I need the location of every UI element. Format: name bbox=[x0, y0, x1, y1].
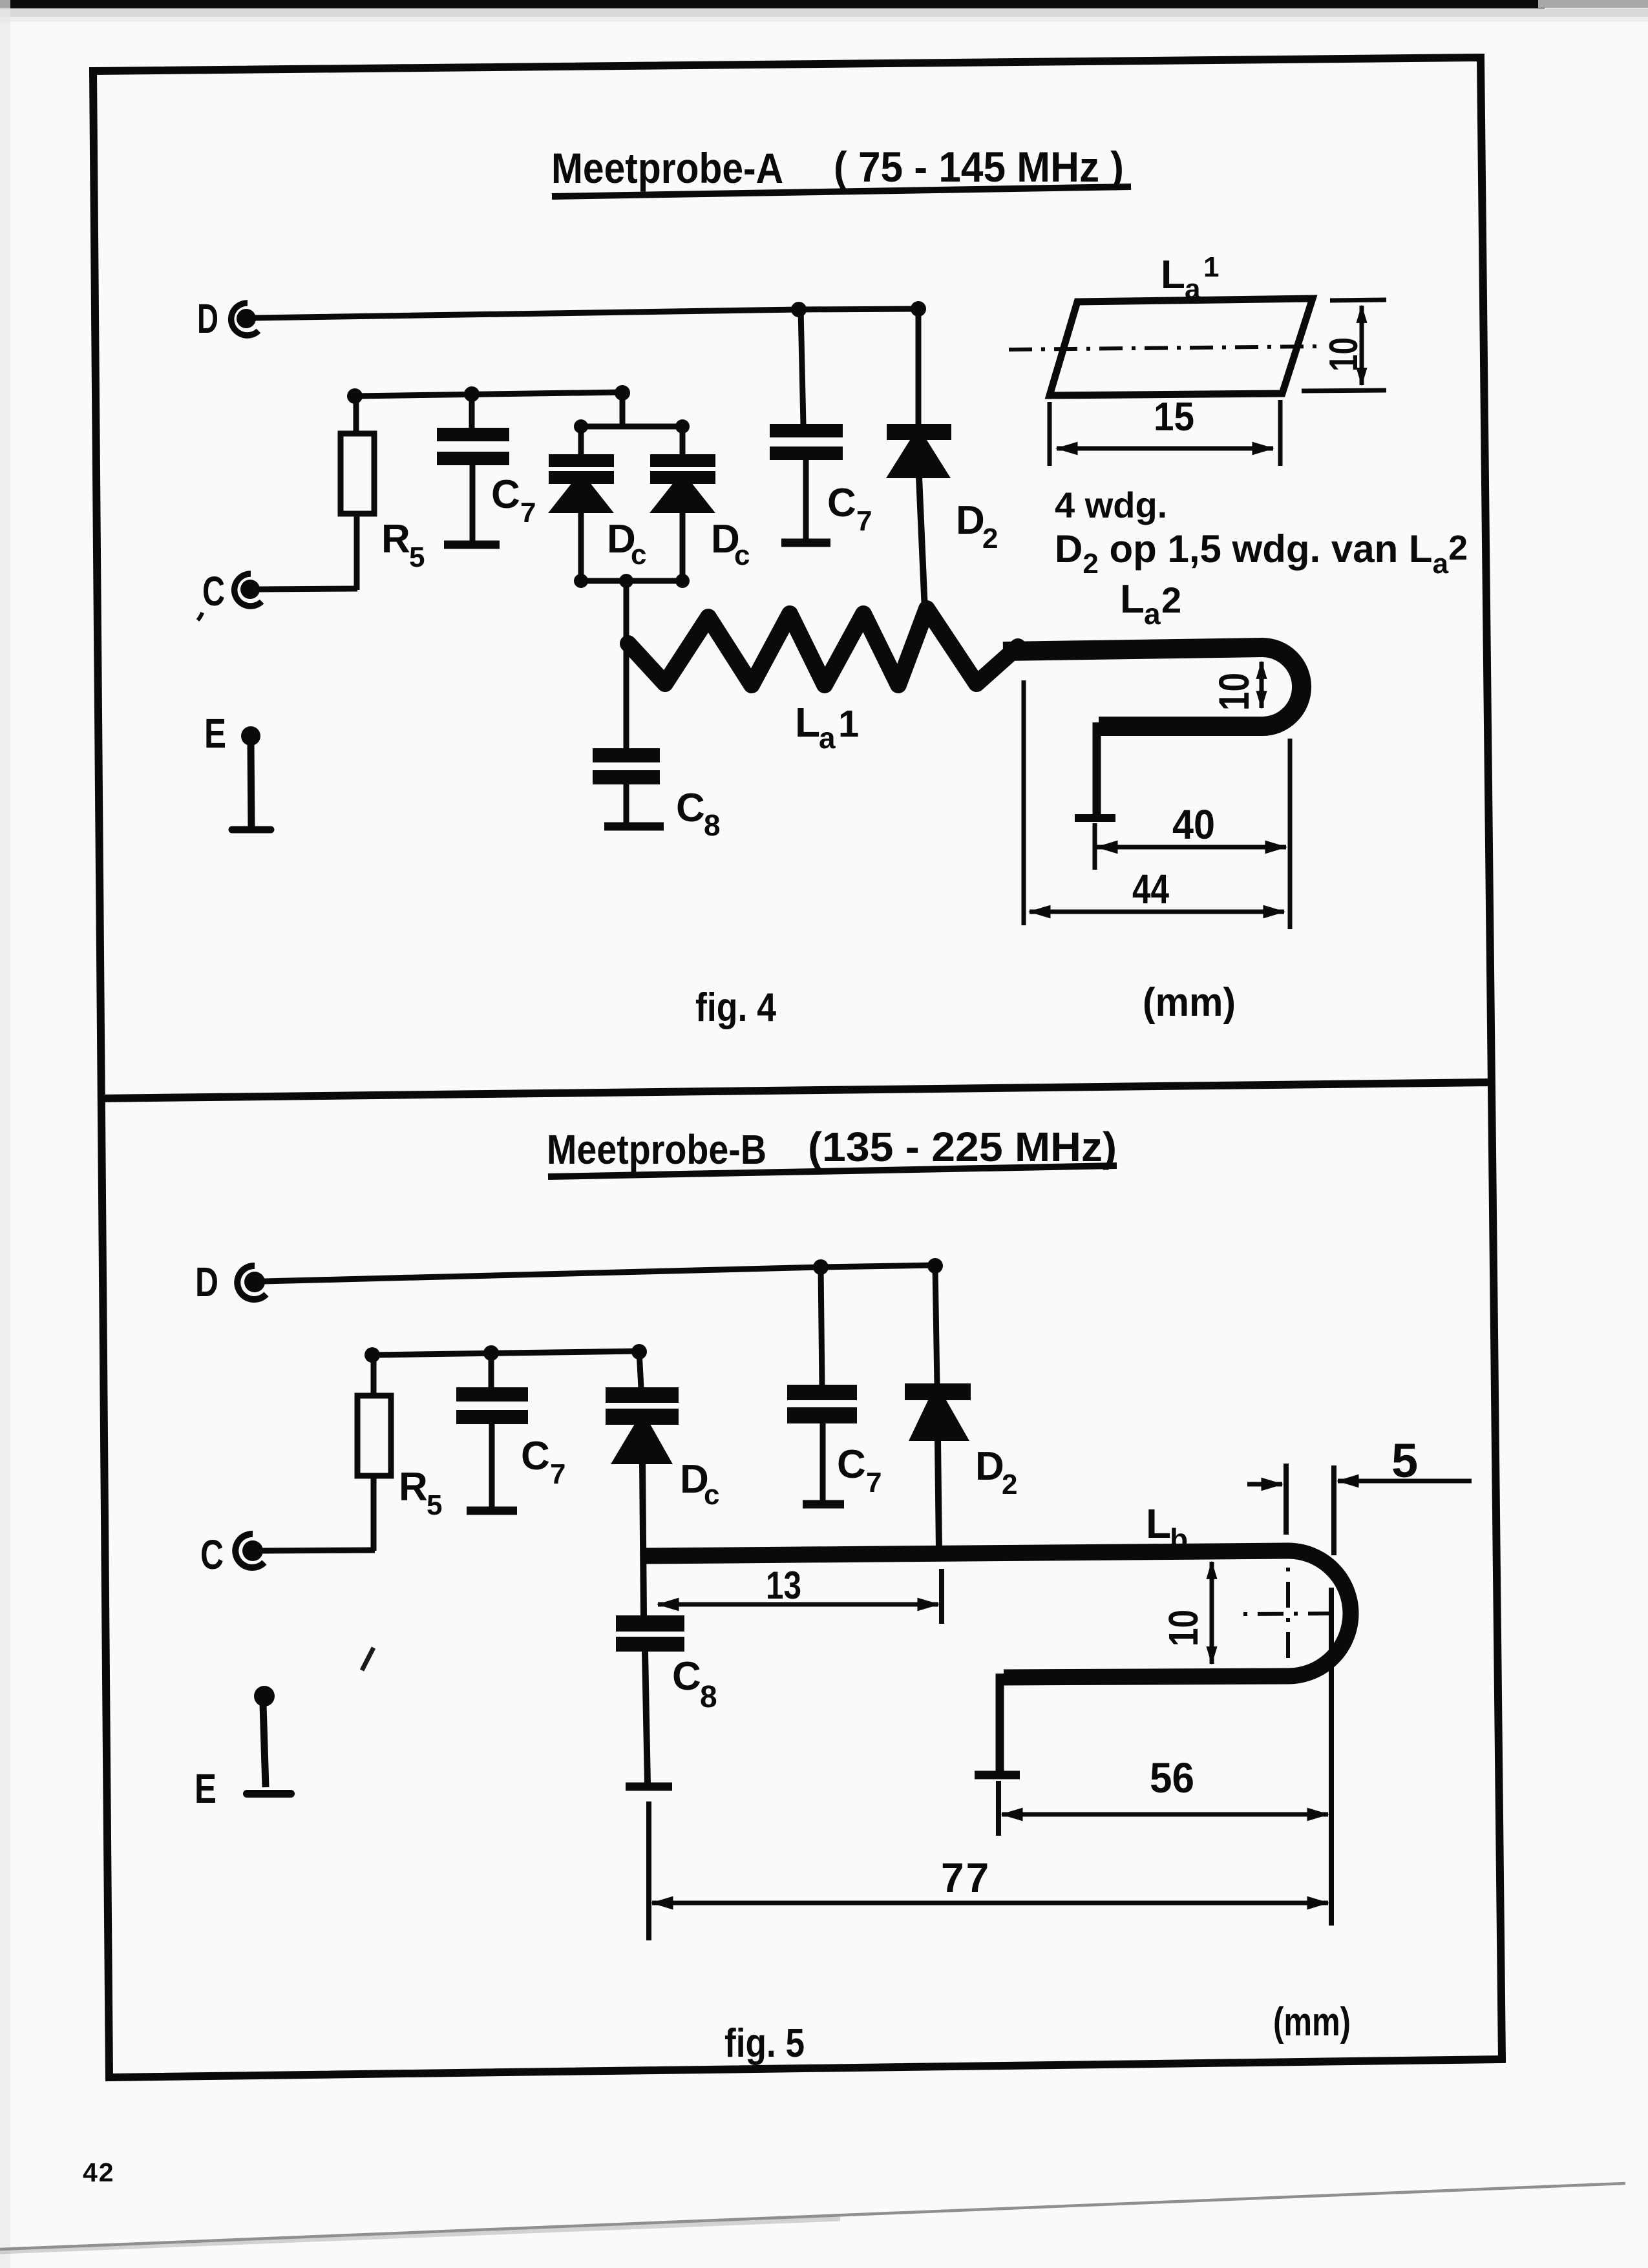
svg-text:2: 2 bbox=[1161, 580, 1181, 620]
svg-text:77: 77 bbox=[941, 1854, 991, 1901]
svg-text:L: L bbox=[795, 699, 820, 746]
svg-text:5: 5 bbox=[1391, 1434, 1418, 1487]
svg-text:E: E bbox=[204, 710, 226, 757]
svg-text:44: 44 bbox=[1132, 866, 1169, 912]
svg-text:a: a bbox=[1144, 597, 1161, 631]
svg-text:7: 7 bbox=[550, 1458, 565, 1490]
svg-text:(mm): (mm) bbox=[1273, 2000, 1351, 2044]
svg-text:C: C bbox=[491, 472, 520, 517]
svg-text:7: 7 bbox=[866, 1467, 882, 1498]
svg-text:15: 15 bbox=[1154, 395, 1194, 439]
svg-text:L: L bbox=[1120, 577, 1145, 622]
svg-text:D: D bbox=[956, 498, 985, 543]
svg-text:D: D bbox=[197, 295, 218, 342]
svg-text:D: D bbox=[195, 1259, 218, 1305]
svg-text:2: 2 bbox=[1002, 1469, 1017, 1500]
svg-text:C: C bbox=[837, 1442, 866, 1487]
svg-text:a: a bbox=[1185, 273, 1201, 305]
svg-text:a: a bbox=[819, 721, 836, 755]
svg-text:E: E bbox=[195, 1765, 217, 1812]
svg-text:L: L bbox=[1146, 1500, 1171, 1547]
svg-text:8: 8 bbox=[700, 1680, 717, 1714]
svg-text:R: R bbox=[399, 1465, 428, 1509]
svg-text:C: C bbox=[200, 1531, 224, 1578]
svg-text:10: 10 bbox=[1210, 673, 1258, 711]
svg-text:(135 - 225 MHz): (135 - 225 MHz) bbox=[808, 1124, 1117, 1170]
svg-text:7: 7 bbox=[520, 497, 536, 529]
svg-text:c: c bbox=[631, 539, 646, 571]
svg-text:Meetprobe-B: Meetprobe-B bbox=[547, 1126, 766, 1173]
svg-text:(mm): (mm) bbox=[1143, 980, 1236, 1025]
svg-text:1: 1 bbox=[1203, 251, 1219, 283]
svg-text:C: C bbox=[202, 568, 225, 614]
svg-text:L: L bbox=[1161, 253, 1185, 297]
svg-text:D2 op 1,5 wdg. van La2: D2 op 1,5 wdg. van La2 bbox=[1055, 527, 1468, 580]
svg-text:Meetprobe-A: Meetprobe-A bbox=[551, 144, 783, 192]
svg-text:( 75 - 145 MHz ): ( 75 - 145 MHz ) bbox=[834, 143, 1124, 191]
svg-text:R: R bbox=[381, 517, 410, 562]
svg-text:42: 42 bbox=[83, 2158, 115, 2187]
svg-text:10: 10 bbox=[1160, 1610, 1207, 1646]
svg-text:4 wdg.: 4 wdg. bbox=[1055, 485, 1167, 525]
svg-text:1: 1 bbox=[838, 703, 859, 745]
svg-text:C: C bbox=[827, 481, 856, 525]
svg-text:C: C bbox=[676, 786, 705, 830]
svg-text:10: 10 bbox=[1322, 337, 1366, 372]
svg-text:C: C bbox=[521, 1434, 550, 1478]
svg-text:5: 5 bbox=[427, 1489, 442, 1521]
svg-text:c: c bbox=[734, 540, 750, 571]
svg-text:5: 5 bbox=[409, 541, 425, 573]
svg-text:56: 56 bbox=[1150, 1754, 1194, 1801]
svg-text:fig. 4: fig. 4 bbox=[695, 985, 776, 1030]
svg-text:fig. 5: fig. 5 bbox=[724, 2021, 805, 2066]
svg-text:13: 13 bbox=[766, 1564, 801, 1607]
svg-text:2: 2 bbox=[982, 523, 998, 554]
svg-text:40: 40 bbox=[1172, 801, 1215, 848]
svg-text:c: c bbox=[704, 1479, 719, 1511]
svg-text:b: b bbox=[1170, 1522, 1188, 1556]
svg-text:D: D bbox=[975, 1444, 1004, 1489]
svg-text:8: 8 bbox=[704, 808, 721, 842]
svg-text:7: 7 bbox=[856, 505, 872, 537]
svg-text:C: C bbox=[672, 1654, 701, 1699]
